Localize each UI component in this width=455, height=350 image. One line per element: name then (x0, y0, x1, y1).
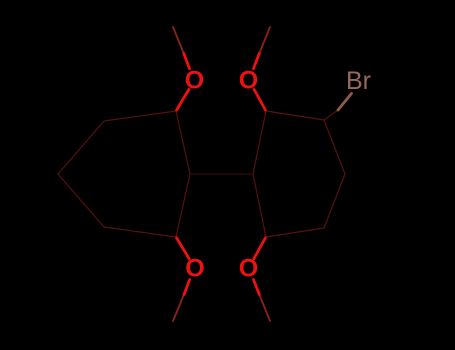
wire: left benzene ring edge C2-C3 (104, 111, 176, 121)
svg-text:Br: Br (346, 67, 371, 95)
bond O(top-right) to methyl, red half (254, 54, 260, 69)
bond Br to ring C3', dark half (324, 110, 338, 120)
wire: left benzene ring edge C5-C6 (104, 227, 176, 237)
bond O(top-left) to methyl, dark half (173, 27, 184, 54)
wire: right benzene ring edge C3'-C4' (324, 120, 345, 174)
svg-text:O: O (185, 255, 204, 283)
svg-text:O: O (239, 255, 258, 283)
wire: left benzene ring edge C6-C1 (176, 174, 190, 237)
wire: right benzene ring edge C4'-C5' (324, 174, 345, 228)
wire: right benzene ring edge C6'-C1' (253, 174, 266, 237)
bond Br to ring C3', brown half (338, 94, 352, 111)
wire: left benzene ring edge C3-C4 (58, 121, 104, 174)
svg-text:O: O (185, 67, 204, 95)
bond O(bottom-left) to methyl, red half (184, 280, 190, 295)
wire: biphenyl central bond C1-C1' (190, 173, 253, 175)
bond O(bottom-right) to ring C6' (red) (254, 238, 266, 259)
wire: left benzene ring edge C4-C5 (58, 174, 104, 227)
wire: left benzene ring edge C1-C2 (176, 111, 190, 174)
bond O(top-left) to methyl, red half (184, 54, 190, 69)
svg-text:O: O (239, 67, 258, 95)
bond O(bottom-left) to ring C6 (red) (177, 238, 190, 259)
wire: right benzene ring edge C5'-C6' (266, 228, 324, 237)
bond O(bottom-left) to methyl, dark half (173, 295, 184, 322)
wire: right benzene ring edge C2'-C3' (266, 111, 324, 120)
bond O(top-right) to methyl, dark half (259, 27, 270, 54)
wire: right benzene ring edge C1'-C2' (253, 111, 266, 174)
bond O(top-right) to ring C2' (red) (254, 89, 265, 110)
bond O(bottom-right) to methyl, dark half (259, 295, 270, 322)
bond O(bottom-right) to methyl, red half (254, 280, 260, 295)
bond O(top-left) to ring C2 (red) (177, 89, 189, 110)
